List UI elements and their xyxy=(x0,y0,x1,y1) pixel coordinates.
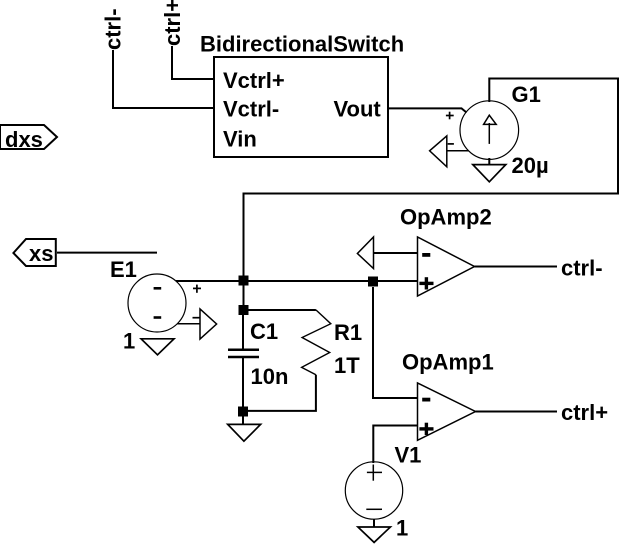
svg-text:1: 1 xyxy=(396,516,408,541)
svg-text:R1: R1 xyxy=(334,320,362,345)
junction node J4 xyxy=(368,277,378,287)
current source G1 xyxy=(460,101,519,160)
op-amp OpAmp1 xyxy=(418,383,476,440)
OpAmp2 minus mark xyxy=(422,253,430,257)
svg-text:Vctrl-: Vctrl- xyxy=(223,97,279,122)
wire J2 to R1 xyxy=(243,309,316,311)
wire R1 to J3 xyxy=(248,375,316,411)
E1 minus mark xyxy=(193,317,200,319)
op-amp OpAmp2 xyxy=(418,237,475,296)
port dxs xyxy=(0,125,57,152)
svg-text:V1: V1 xyxy=(395,443,422,468)
OpAmp2 plus mark xyxy=(419,277,433,289)
svg-text:C1: C1 xyxy=(250,319,278,344)
svg-text:ctrl-: ctrl- xyxy=(101,8,126,50)
svg-text:20µ: 20µ xyxy=(512,153,549,178)
svg-text:xs: xs xyxy=(29,241,53,266)
wire E1 output node xyxy=(176,280,418,282)
OpAmp1 minus mark xyxy=(422,398,430,402)
wire J1 to J2 xyxy=(243,281,245,310)
wire xs to E1 xyxy=(57,252,157,254)
V1 ground stub xyxy=(373,519,375,527)
svg-text:OpAmp1: OpAmp1 xyxy=(402,349,494,374)
svg-text:Vin: Vin xyxy=(223,127,257,152)
svg-text:Vout: Vout xyxy=(334,97,382,122)
voltage source V1 xyxy=(345,462,402,519)
wire ctrl+ to Vctrl+ pin xyxy=(172,46,215,79)
wire OpAmp1 output xyxy=(476,411,558,413)
block U1 BidirectionalSwitch xyxy=(214,57,388,157)
svg-text:10n: 10n xyxy=(251,364,289,389)
svg-text:ctrl-: ctrl- xyxy=(561,256,603,281)
wire J4 to OpAmp1 minus xyxy=(373,287,418,398)
E1 plus mark xyxy=(193,285,201,293)
svg-text:G1: G1 xyxy=(512,82,541,107)
wire OpAmp2 minus input xyxy=(374,252,418,254)
OpAmp1 plus mark xyxy=(419,423,433,435)
svg-text:Vctrl+: Vctrl+ xyxy=(223,68,285,93)
resistor R1 xyxy=(302,310,331,375)
G1 plus mark xyxy=(446,112,454,120)
svg-text:ctrl+: ctrl+ xyxy=(160,0,185,46)
ground E1 xyxy=(141,339,174,355)
junction node J2 xyxy=(239,305,249,315)
OpAmp2 control arrow xyxy=(357,237,373,269)
wire J2 to C1 xyxy=(242,310,244,349)
junction node J3 xyxy=(238,407,248,417)
ground G1 xyxy=(473,165,506,182)
svg-text:1T: 1T xyxy=(334,353,360,378)
G1 control arrow xyxy=(430,136,469,167)
E1 control arrow xyxy=(177,309,217,339)
svg-text:ctrl+: ctrl+ xyxy=(561,400,608,425)
svg-text:dxs: dxs xyxy=(5,127,43,152)
G1 minus mark xyxy=(448,143,454,145)
wire OpAmp2 output xyxy=(475,266,558,268)
wire Vout to G1 xyxy=(388,108,467,112)
G1 ground stub xyxy=(488,158,490,165)
svg-text:BidirectionalSwitch: BidirectionalSwitch xyxy=(200,32,404,57)
ground C1 xyxy=(228,424,261,441)
svg-text:OpAmp2: OpAmp2 xyxy=(400,204,492,229)
wire ctrl- to Vctrl- pin xyxy=(113,50,215,108)
capacitor C1 xyxy=(228,350,259,357)
wire OpAmp1 plus input xyxy=(373,426,417,464)
wire G1 feedback loop xyxy=(244,79,619,279)
wire J3 to ground xyxy=(242,416,244,424)
junction node J1 xyxy=(239,276,249,286)
ground V1 xyxy=(358,527,391,542)
wire C1 to J3 xyxy=(242,357,244,411)
svg-text:1: 1 xyxy=(123,329,135,354)
svg-text:E1: E1 xyxy=(110,257,137,282)
port xs xyxy=(13,239,55,266)
controlled source E1 xyxy=(128,274,186,332)
